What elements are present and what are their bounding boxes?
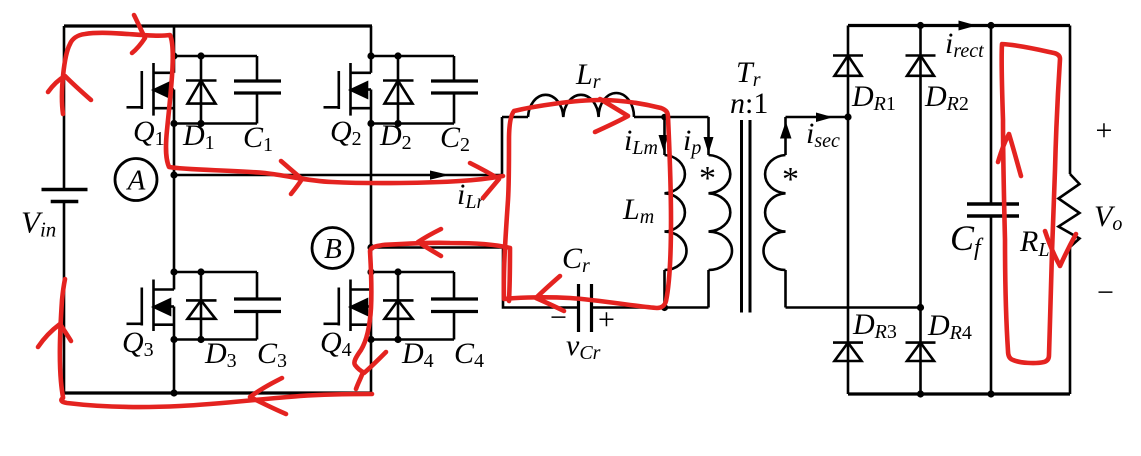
node dot Q2 drain xyxy=(367,52,374,59)
diode D3 xyxy=(186,272,217,340)
diode DR4 xyxy=(906,343,936,361)
node dot D4 bottom xyxy=(394,336,401,343)
svg-text:Q4: Q4 xyxy=(320,326,352,361)
node dot Lm bottom xyxy=(661,304,668,311)
capacitor C3 xyxy=(234,272,281,340)
red loop output xyxy=(1002,44,1060,363)
current arrow isec up xyxy=(780,122,792,139)
transistor Q4 xyxy=(324,272,372,340)
wire Q1 cell node lines xyxy=(174,55,257,58)
node dot rail DR2 top xyxy=(917,22,924,29)
current arrow iLr xyxy=(430,171,450,180)
node dot Q1 drain xyxy=(170,52,177,59)
svg-text:−: − xyxy=(1097,276,1114,309)
node dot A xyxy=(170,171,177,178)
node dot Q3 source xyxy=(170,336,177,343)
node dot Q3 drain xyxy=(170,268,177,275)
node dot Q4 drain xyxy=(367,268,374,275)
svg-text:*: * xyxy=(699,160,716,197)
node dot Q2 source xyxy=(367,120,374,127)
red annotation group xyxy=(38,15,1076,414)
transformer core xyxy=(742,120,751,313)
capacitor C1 xyxy=(234,56,281,124)
svg-text:DR3: DR3 xyxy=(852,308,897,343)
red loop resonant tank xyxy=(504,100,671,308)
current arrow ip xyxy=(704,137,714,154)
node dot rail Cf bottom xyxy=(987,390,994,397)
svg-text:Lm: Lm xyxy=(622,193,654,228)
svg-text:Q3: Q3 xyxy=(122,326,154,361)
wire Q1-Q3 leg through node A xyxy=(173,124,176,273)
node dot B xyxy=(367,244,374,251)
svg-text:irect: irect xyxy=(945,27,984,62)
wire left vertical upper xyxy=(63,26,66,189)
svg-text:D4: D4 xyxy=(401,337,434,372)
current arrow iLm xyxy=(659,135,669,151)
capacitor C2 xyxy=(431,56,478,124)
diode D2 xyxy=(383,56,414,124)
wire node B line to Cr xyxy=(371,248,578,308)
wire top rail xyxy=(64,24,372,27)
wire Q4 to bottom rail xyxy=(370,340,373,394)
svg-text:DR1: DR1 xyxy=(851,80,896,115)
node dot rail DR4 bottom xyxy=(917,390,924,397)
red arrowhead left on Cr wire xyxy=(536,276,564,311)
svg-text:C3: C3 xyxy=(257,337,287,372)
transistor Q3 xyxy=(127,272,175,340)
svg-text:vCr: vCr xyxy=(566,329,601,364)
node dot D2 bottom xyxy=(394,120,401,127)
svg-text:Lr: Lr xyxy=(575,58,601,93)
red arrowhead right on node A wire xyxy=(281,161,302,194)
red arrowhead down at Q4 xyxy=(364,352,386,373)
node B circle xyxy=(312,228,353,269)
svg-text:C4: C4 xyxy=(454,337,484,372)
wire riser to Lr xyxy=(501,117,504,175)
wire Cr to primary bottom xyxy=(592,306,709,309)
wire rectifier bottom rail xyxy=(848,392,1070,395)
current arrow irect xyxy=(959,21,977,31)
svg-text:Tr: Tr xyxy=(736,56,761,91)
svg-text:ip: ip xyxy=(683,124,701,159)
red path bottom left riser xyxy=(60,279,65,397)
diode D1 xyxy=(186,56,217,124)
node dot D4 top xyxy=(394,268,401,275)
wire DR1-DR3 leg xyxy=(847,26,850,395)
wire rectifier top rail xyxy=(848,24,1070,27)
wire bottom rail xyxy=(64,391,371,394)
red arrowhead down on output loop right xyxy=(1045,231,1076,266)
battery Vin xyxy=(42,190,88,202)
svg-text:DR4: DR4 xyxy=(927,309,972,344)
svg-text:Vin: Vin xyxy=(21,205,56,242)
svg-text:iLm: iLm xyxy=(624,124,658,159)
svg-text:Q1: Q1 xyxy=(133,115,165,150)
svg-text:B: B xyxy=(324,233,342,265)
inductor Lm xyxy=(665,117,687,308)
red path input riser and top rail to node A wire xyxy=(62,33,503,183)
node dot Q1 source xyxy=(170,120,177,127)
capacitor Cf xyxy=(967,26,1019,395)
wire secondary top to rectifier xyxy=(786,116,849,119)
node dot D2 top xyxy=(394,52,401,59)
red path bottom rail xyxy=(61,394,372,407)
svg-text:n:1: n:1 xyxy=(730,87,768,120)
transformer secondary winding xyxy=(764,117,786,308)
svg-text:DR2: DR2 xyxy=(924,80,969,115)
node dot rail Cf top xyxy=(987,22,994,29)
diode DR1 xyxy=(833,56,863,76)
node dot secondary top junction xyxy=(844,113,851,120)
svg-text:A: A xyxy=(126,165,146,197)
svg-text:C1: C1 xyxy=(243,121,273,156)
node dot Lm top xyxy=(661,114,668,121)
svg-text:+: + xyxy=(1096,114,1113,147)
transistor Q2 xyxy=(324,26,372,124)
svg-text:isec: isec xyxy=(806,117,840,152)
red arrowhead left on bottom rail xyxy=(250,378,286,414)
svg-text:C2: C2 xyxy=(440,121,470,156)
red arrowhead left on node B wire xyxy=(418,229,441,256)
diode D4 xyxy=(383,272,414,340)
node A circle xyxy=(115,159,157,201)
red arrowhead right at Lr riser xyxy=(470,163,499,198)
svg-text:iLr: iLr xyxy=(457,178,484,213)
wire Q4 cell node lines xyxy=(371,271,454,274)
resistor RL xyxy=(1059,26,1080,395)
red arrowhead up on input riser xyxy=(48,76,91,100)
svg-text:D3: D3 xyxy=(204,337,237,372)
svg-text:+: + xyxy=(598,303,615,336)
capacitor C4 xyxy=(431,272,478,340)
red arrowhead right on Lr xyxy=(595,99,628,132)
node dot bottom rail Q3 xyxy=(170,389,177,396)
svg-text:Cr: Cr xyxy=(562,242,590,277)
wire left vertical lower xyxy=(63,202,66,393)
inductor Lr xyxy=(502,93,709,117)
wire Q3 cell node lines xyxy=(174,271,257,274)
red arrowhead up on output loop left xyxy=(998,134,1021,176)
svg-text:Vo: Vo xyxy=(1094,200,1122,235)
wire node A output line xyxy=(174,174,502,177)
wire Q2-Q4 leg through node B xyxy=(370,124,373,273)
node dot D3 bottom xyxy=(197,336,204,343)
red arrowhead right on top rail xyxy=(132,15,145,53)
red arrowhead up on bottom left riser xyxy=(38,324,71,347)
svg-text:Cf: Cf xyxy=(950,218,984,261)
wire Q2 cell node lines xyxy=(371,55,454,58)
node dot Q4 source xyxy=(367,336,374,343)
transformer primary winding xyxy=(709,117,733,308)
svg-text:*: * xyxy=(782,161,799,198)
wire DR2-DR4 leg xyxy=(919,26,922,395)
wire secondary bottom to rectifier xyxy=(786,306,921,309)
diode DR2 xyxy=(906,56,936,76)
capacitor Cr xyxy=(579,284,592,332)
diode DR3 xyxy=(833,343,863,361)
node dot D3 top xyxy=(197,268,204,275)
current arrow isec right xyxy=(816,113,833,123)
wire Q3 to bottom rail xyxy=(173,340,176,394)
node dot D1 top xyxy=(197,52,204,59)
red path node B wire to Q4 xyxy=(354,243,510,389)
node dot D1 bottom xyxy=(197,120,204,127)
node dot secondary bottom junction xyxy=(917,304,924,311)
svg-text:Q2: Q2 xyxy=(330,115,362,150)
transistor Q1 xyxy=(127,26,175,124)
